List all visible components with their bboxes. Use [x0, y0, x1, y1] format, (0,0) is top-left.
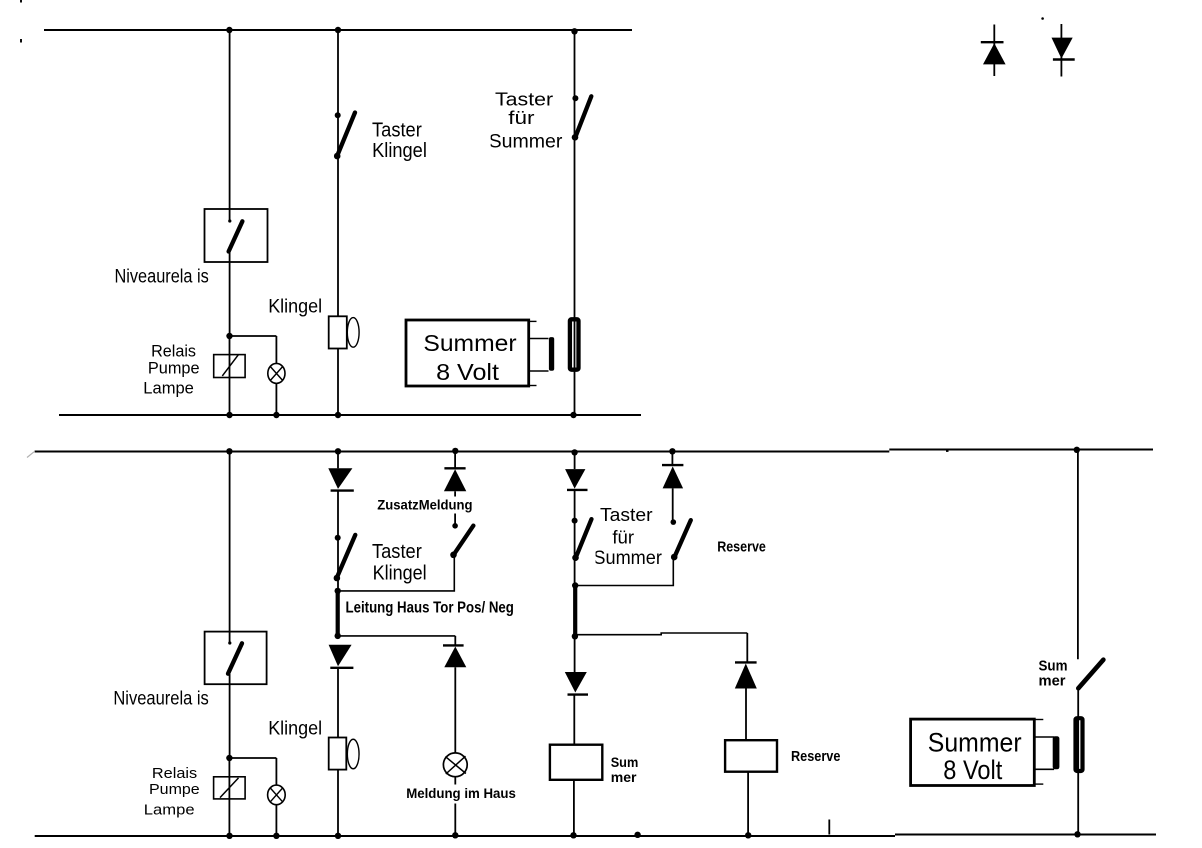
node junction A2: [226, 755, 232, 761]
wire thick cable col D: [573, 586, 577, 637]
svg-text:Summer: Summer: [593, 548, 662, 569]
wire reserve box to rail: [747, 772, 749, 836]
lamp L3 cross stroke 1: [445, 757, 466, 774]
wire K1 to junction: [229, 252, 231, 337]
switch S5 blade: [575, 519, 591, 559]
relay K1 level-switch box Niveaurela: [205, 209, 268, 262]
wire col D top rail to diode: [574, 451, 576, 469]
buzzer U2 box Summer 8 Volt: [911, 719, 1035, 785]
node switch S5 top contact: [572, 518, 578, 524]
svg-text:Pumpe: Pumpe: [149, 781, 200, 798]
wire top supply rail left part: [35, 451, 890, 453]
wire diode D10 to reserve box: [745, 689, 747, 741]
stray tick left margin: [20, 39, 22, 43]
diode D2 spare (down) wire: [1060, 24, 1062, 77]
node switch S1 top contact: [335, 112, 341, 118]
diode D10 cathode bar (up): [735, 661, 757, 663]
stray tick on bottom rail: [828, 820, 830, 835]
svg-text:Summer: Summer: [928, 727, 1022, 757]
svg-text:8 Volt: 8 Volt: [436, 359, 499, 385]
wire junction B1 to switch S4 branch: [338, 556, 455, 591]
svg-text:Klingel: Klingel: [372, 140, 427, 162]
node junction top rail col B: [335, 448, 341, 454]
wire junction A2 to lamp branch: [229, 757, 276, 759]
switch contact blade inside K2: [228, 643, 242, 673]
wire col C top rail to diode D5: [454, 451, 456, 468]
wire diode D7 to junction D1n: [574, 490, 576, 586]
relay coil box Relais Pumpe: [214, 355, 245, 378]
wire junction B2 to diode D6 branch: [338, 635, 456, 637]
lamp L1 cross stroke 2: [270, 367, 282, 381]
wire junction D1n to switch S6 branch: [575, 558, 673, 586]
node junction top rail col A: [226, 27, 232, 33]
wire col B top rail to diode: [337, 451, 339, 468]
wire switch S7 to buzzer bar: [1077, 688, 1079, 834]
svg-text:8 Volt: 8 Volt: [943, 755, 1003, 785]
buzzer U2 armature bar: [1053, 736, 1060, 769]
svg-text:Klingel: Klingel: [373, 563, 427, 585]
node junction D1n: [572, 582, 578, 588]
wire bottom return rail: [59, 414, 641, 416]
node junction bottom rail stray: [634, 832, 640, 838]
diode D9 cathode bar (up): [662, 464, 683, 466]
node switch S6 top contact: [671, 519, 677, 525]
diode D8 triangle (down): [565, 672, 587, 693]
label ZusatzMeldung background: [377, 497, 475, 514]
bell H1 gong ellipse: [347, 318, 359, 348]
svg-text:Klingel: Klingel: [268, 718, 322, 739]
svg-text:Relais: Relais: [152, 765, 197, 782]
wire K2 to junction: [229, 674, 231, 758]
tick U2 top right: [1034, 719, 1043, 721]
wire U2 upper lead: [1034, 736, 1054, 738]
node junction bottom rail col E: [745, 832, 751, 838]
diode D4 triangle (down): [329, 645, 352, 667]
diode D7 triangle (down): [565, 469, 585, 489]
wire diode D8 to summer box: [573, 695, 575, 745]
wire U2 lower lead: [1034, 768, 1054, 770]
switch S1 Taster Klingel blade: [337, 113, 355, 158]
tick U1 bottom right: [529, 385, 536, 387]
diode D9 triangle (up): [663, 466, 684, 488]
node junction top rail col B: [335, 27, 341, 33]
node junction B2: [335, 633, 341, 639]
wire bottom return rail left part: [35, 835, 895, 837]
lamp L2 circle: [268, 785, 286, 805]
relay coil box Relais Pumpe: [214, 777, 246, 799]
node junction top rail col A: [226, 448, 232, 454]
diode D2 triangle: [1052, 38, 1073, 59]
svg-text:Lampe: Lampe: [143, 378, 194, 397]
diode D7 cathode bar: [567, 489, 588, 491]
svg-text:Reserve: Reserve: [791, 749, 840, 765]
node junction top rail col E: [669, 448, 675, 454]
node junction B1: [335, 588, 341, 594]
relay box Reserve: [725, 740, 777, 772]
node junction bottom rail col F: [1074, 831, 1080, 837]
wire lamp L2 to rail: [275, 805, 277, 836]
diode D4 cathode bar: [330, 667, 353, 669]
svg-text:Niveaurela is: Niveaurela is: [115, 266, 209, 288]
svg-text:mer: mer: [1039, 673, 1066, 689]
node junction bottom rail lamp: [273, 833, 279, 839]
svg-text:Meldung im Haus: Meldung im Haus: [406, 786, 516, 801]
wire col C from top rail to buzzer: [574, 30, 576, 415]
bell H2 gong box: [329, 738, 347, 770]
svg-text:Summer: Summer: [423, 330, 516, 356]
svg-text:Reserve: Reserve: [717, 540, 766, 556]
node junction top rail col F: [1074, 447, 1080, 453]
svg-text:ZusatzMeldung: ZusatzMeldung: [377, 498, 472, 513]
diode D2 cathode bar: [1053, 58, 1075, 60]
node wire end inside box: [228, 219, 231, 222]
wire lamp branch down: [275, 336, 277, 364]
svg-text:Lampe: Lampe: [144, 802, 195, 819]
node switch S1 bottom contact: [334, 153, 341, 160]
lamp L2 cross stroke 2: [270, 788, 282, 802]
diode D1 triangle: [983, 43, 1006, 64]
wire diode D9 to switch S6: [672, 488, 674, 522]
switch S3 Taster Klingel blade: [336, 535, 355, 579]
node switch S2 bottom contact: [572, 134, 579, 141]
wire top supply rail: [44, 29, 632, 31]
wire col F top rail to switch: [1077, 450, 1079, 660]
diode D5 triangle (up): [444, 469, 466, 491]
node junction bottom rail col D: [570, 832, 576, 838]
diode D8 cathode bar: [568, 693, 589, 695]
node junction top rail col C: [571, 28, 577, 34]
tick U2 bottom right: [1034, 783, 1043, 785]
wire bell H1 to rail: [337, 349, 339, 416]
bell H1 gong box: [329, 316, 347, 348]
wire lamp L1 to rail: [275, 383, 277, 415]
wire diode D5 to switch S4: [454, 491, 456, 526]
diode D3 cathode bar: [331, 489, 354, 491]
wire summer box to rail: [573, 780, 575, 836]
wire lamp branch down: [275, 758, 277, 785]
buzzer sounder bar col F: [1076, 718, 1083, 771]
diode D6 cathode bar (up): [443, 644, 464, 646]
lamp L3 circle: [443, 753, 467, 777]
wire to diode D6: [454, 636, 456, 646]
wire junction D2n to reserve branch: [575, 633, 747, 635]
lamp L2 cross stroke 1: [270, 788, 282, 802]
svg-text:Pumpe: Pumpe: [148, 359, 200, 378]
wire diode D3 to junction B1: [337, 491, 339, 591]
diode D1 cathode bar: [981, 41, 1004, 43]
node junction top rail col D: [571, 449, 577, 455]
wire bottom return rail right part: [895, 834, 1156, 836]
stray blip on rail: [946, 450, 949, 452]
node junction bottom rail col C: [452, 832, 458, 838]
svg-text:mer: mer: [611, 769, 637, 785]
node switch S4 bottom contact: [450, 552, 457, 559]
svg-text:für: für: [612, 526, 634, 547]
buzzer U1 box Summer 8 Volt: [406, 320, 529, 386]
wire col A from top rail into level-relay box: [229, 30, 231, 222]
buzzer sounder bar on wire: [570, 319, 579, 369]
switch S7 blade: [1078, 660, 1103, 689]
svg-text:Niveaurela is: Niveaurela is: [113, 689, 208, 710]
diode D10 triangle (up): [735, 664, 757, 689]
relay K2 level-switch box Niveaurela: [205, 632, 267, 685]
wire diode D6 to lamp L3: [454, 667, 456, 753]
diode D5 cathode bar (up): [444, 467, 465, 469]
wire thick cable Leitung: [336, 591, 340, 636]
node junction A1: [226, 333, 232, 339]
stray tick top-left: [20, 0, 22, 3]
wire junction A1 down through relay to rail: [229, 336, 231, 415]
switch S6 blade: [674, 520, 691, 558]
wire bell H2 to rail: [337, 770, 339, 836]
tick U1 top right: [529, 320, 536, 322]
node junction bottom rail col B: [335, 833, 341, 839]
node junction top rail col C: [452, 448, 458, 454]
label Meldung im Haus background: [405, 785, 518, 804]
node junction bottom rail col A: [226, 412, 232, 418]
wire junction D2n down to diode D8: [574, 636, 576, 672]
wire top supply rail right part: [889, 449, 1153, 451]
svg-text:Sum: Sum: [1039, 658, 1068, 674]
stray dot top-right: [1041, 17, 1044, 20]
wire U1 upper lead: [529, 338, 548, 340]
clip notch over S: [483, 133, 491, 153]
clip notch over S: [588, 550, 596, 570]
diode D1 spare (up) wire: [993, 25, 995, 77]
lamp L1 circle: [268, 363, 285, 383]
wire down to diode D10: [746, 633, 748, 662]
relay coil diagonal: [222, 355, 238, 376]
diode D6 triangle (up): [444, 647, 466, 668]
node junction bottom rail col C: [570, 412, 576, 418]
svg-text:für: für: [508, 107, 534, 128]
wire U1 lower lead: [529, 370, 548, 372]
svg-text:Summer: Summer: [489, 131, 563, 152]
svg-text:Taster: Taster: [372, 541, 422, 563]
svg-text:Taster: Taster: [600, 504, 653, 525]
lamp L1 cross stroke 1: [270, 367, 282, 381]
node wire end inside box: [228, 641, 231, 644]
wire col A from top rail into level-relay box: [229, 451, 231, 643]
node switch S6 bottom contact: [671, 554, 678, 561]
wire junction A1 to lamp branch: [230, 335, 277, 337]
svg-text:Leitung Haus Tor Pos/ Neg: Leitung Haus Tor Pos/ Neg: [346, 600, 514, 617]
wire diode D4 to bell: [337, 668, 339, 738]
switch S2 Taster fuer Summer blade: [575, 96, 591, 138]
node junction bottom rail col A: [226, 833, 232, 839]
node switch S2 top contact: [572, 95, 578, 101]
svg-text:Taster: Taster: [372, 120, 422, 142]
svg-text:Klingel: Klingel: [268, 297, 322, 318]
wire col E top rail to diode: [671, 451, 673, 465]
stray grey smudge at rail start: [27, 452, 34, 458]
switch S4 blade: [453, 526, 474, 556]
wire lamp L3 to rail: [454, 777, 456, 836]
node switch S3 top contact: [335, 535, 341, 541]
node junction bottom rail lamp: [273, 412, 279, 418]
buzzer U1 armature bar: [549, 337, 554, 371]
node switch S3 bottom contact: [334, 575, 341, 582]
wire col B from top rail to bell: [337, 30, 339, 316]
node switch S4 top contact: [452, 523, 458, 529]
lamp L3 cross stroke 2: [446, 756, 466, 774]
svg-text:Sum: Sum: [611, 754, 639, 770]
relay coil diagonal: [220, 778, 239, 798]
diode D3 triangle (down): [328, 468, 352, 489]
wire junction A2 down through relay to rail: [228, 758, 230, 836]
buzzer box Summer (small): [550, 745, 602, 780]
node junction bottom rail col B: [335, 412, 341, 418]
bell H2 gong ellipse: [347, 739, 359, 769]
node switch S5 bottom contact: [572, 554, 579, 561]
node junction D2n: [572, 633, 578, 639]
svg-text:Relais: Relais: [151, 341, 196, 360]
switch contact blade inside K1: [229, 221, 243, 251]
